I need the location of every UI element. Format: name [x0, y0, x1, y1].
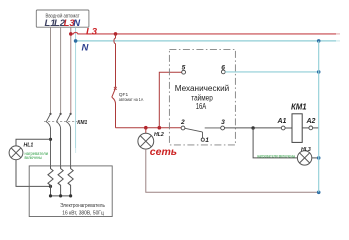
- svg-text:нагреватели включены: нагреватели включены: [257, 153, 295, 158]
- terminal A2: [309, 126, 313, 130]
- svg-text:HL1: HL1: [24, 143, 34, 149]
- wire L1 vertical: [50, 27, 52, 113]
- wire blade to terminal 3: [205, 127, 221, 129]
- lamp HL3: [297, 151, 311, 165]
- breaker QF1: [112, 34, 117, 128]
- wire coil to A2: [302, 127, 309, 129]
- svg-text:Электронагреватель: Электронагреватель: [60, 203, 105, 209]
- timer switch blade: [185, 128, 202, 132]
- lamp HL1: [9, 146, 23, 160]
- wire HL1 top: [16, 139, 51, 146]
- svg-text:N: N: [82, 43, 90, 54]
- junction HL1 top tap on L1: [49, 138, 52, 141]
- svg-text:КМ1: КМ1: [77, 120, 87, 126]
- svg-text:L3: L3: [86, 27, 98, 38]
- svg-text:16А: 16А: [196, 101, 207, 111]
- svg-text:КМ1: КМ1: [291, 102, 307, 111]
- wire terminal 3 to A1: [225, 127, 282, 129]
- wire L2 vertical: [60, 27, 62, 113]
- resistor heater element 2: [58, 166, 63, 196]
- contactor KM1 pole 3: [66, 113, 71, 166]
- wire riser to terminal 5: [159, 72, 181, 128]
- resistor heater element 1: [48, 166, 53, 196]
- wire L3 vertical: [70, 27, 72, 113]
- input breaker box Вводной автомат: [36, 10, 89, 27]
- terminal 1: [201, 138, 204, 141]
- junction bottom right: [317, 191, 321, 195]
- terminal 5: [182, 70, 186, 74]
- wire N bus: [76, 40, 336, 42]
- heater box: [29, 166, 112, 217]
- svg-text:6: 6: [221, 64, 225, 71]
- coil KM1: [292, 114, 302, 143]
- terminal A1: [281, 126, 285, 130]
- wire QF1 to timer terminal 2: [116, 127, 182, 129]
- svg-text:16 кВт, 380В, 50Гц: 16 кВт, 380В, 50Гц: [62, 211, 104, 217]
- wire A2 to N drop: [313, 127, 319, 129]
- wire HL1 bottom: [16, 160, 51, 187]
- svg-text:5: 5: [182, 64, 186, 71]
- wire L3 bus: [71, 32, 336, 34]
- wire N vertical: [75, 27, 77, 148]
- terminal 2: [181, 126, 185, 130]
- svg-text:1: 1: [205, 137, 209, 144]
- wire HL3 to N drop: [312, 157, 319, 159]
- junction HL2 tap: [144, 126, 148, 130]
- junction star 3: [69, 194, 72, 197]
- wire HL2 stub: [145, 128, 147, 134]
- wire HL2 bottom: [146, 149, 319, 192]
- svg-text:сеть: сеть: [150, 146, 177, 158]
- svg-text:A1: A1: [277, 118, 287, 125]
- terminal 6: [221, 70, 225, 74]
- junction star 1: [49, 194, 52, 197]
- wire heater star point: [51, 195, 71, 197]
- svg-text:2: 2: [180, 119, 185, 126]
- junction riser to terminal 5: [158, 126, 162, 130]
- svg-text:включены: включены: [25, 155, 43, 160]
- wire HL3 branch: [253, 128, 297, 158]
- svg-text:3: 3: [221, 119, 225, 126]
- svg-text:HL2: HL2: [154, 132, 164, 138]
- wire N right drop: [318, 41, 320, 192]
- svg-text:автомат на 1А: автомат на 1А: [119, 97, 144, 102]
- terminal 3: [221, 126, 225, 130]
- junction star 2: [59, 194, 62, 197]
- svg-text:HL3: HL3: [301, 147, 311, 153]
- junction L3 bus start: [69, 32, 73, 36]
- timer box (dash-dot): [169, 49, 235, 144]
- junction N bus start: [74, 39, 78, 43]
- contactor KM1 pole 2: [56, 113, 61, 166]
- junction N drop HL3: [317, 156, 321, 160]
- resistor heater element 3: [68, 166, 73, 196]
- contactor KM1 pole 1: [46, 113, 51, 166]
- junction HL1 bottom tap: [49, 185, 52, 188]
- contactor KM1 linkage (dashed): [44, 120, 77, 122]
- junction N drop terminal6: [317, 70, 321, 74]
- wire A1 to coil: [285, 127, 292, 129]
- junction N bus to right drop: [317, 39, 321, 43]
- junction HL3 tap: [251, 126, 254, 129]
- wire terminal 6 to N drop: [225, 71, 319, 73]
- lamp HL2: [138, 133, 154, 149]
- svg-text:A2: A2: [306, 118, 316, 125]
- junction QF1 tap on L3 bus: [114, 32, 118, 36]
- svg-text:N: N: [73, 18, 81, 29]
